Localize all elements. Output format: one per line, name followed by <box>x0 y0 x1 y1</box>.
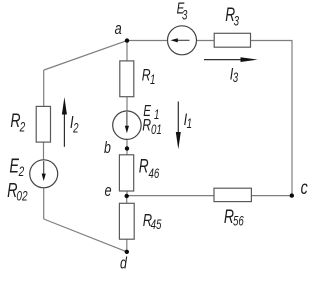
svg-text:c: c <box>301 177 309 198</box>
wire E2 down to bottom bend <box>43 188 45 219</box>
resistor R1 <box>120 61 134 97</box>
resistor R46 <box>119 155 133 191</box>
label R3 <box>225 4 239 29</box>
svg-text:R: R <box>139 155 149 177</box>
resistor R56 <box>214 188 251 201</box>
label R46 <box>139 155 160 181</box>
svg-text:1: 1 <box>150 73 155 88</box>
current arrow I2 <box>62 97 67 147</box>
label I3 <box>230 65 239 86</box>
svg-text:d: d <box>120 255 128 273</box>
source E1 <box>113 111 141 139</box>
wire E1 to b <box>126 139 128 148</box>
svg-text:2: 2 <box>19 119 26 135</box>
node e <box>125 194 129 198</box>
wire a diagonal to left bend <box>44 41 127 70</box>
svg-text:3: 3 <box>234 14 240 29</box>
label E1 <box>143 101 159 123</box>
node d <box>125 250 129 254</box>
label R56 <box>224 206 244 229</box>
wire R46 to e <box>126 191 128 196</box>
label R2 <box>10 110 25 135</box>
node c <box>290 193 294 197</box>
svg-text:45: 45 <box>151 217 162 232</box>
svg-text:e: e <box>105 181 112 200</box>
current arrow I1 <box>176 102 181 150</box>
svg-text:2: 2 <box>18 163 25 179</box>
resistor R3 <box>214 33 250 47</box>
svg-text:3: 3 <box>182 8 188 23</box>
svg-text:R: R <box>142 117 151 135</box>
wire R3 to corner and down to c <box>251 41 293 196</box>
label R45 <box>143 211 162 232</box>
svg-text:E: E <box>9 154 19 177</box>
wire b to R46 <box>126 149 128 156</box>
svg-text:46: 46 <box>149 167 160 182</box>
label R02 <box>7 179 28 204</box>
svg-text:a: a <box>115 19 122 38</box>
label E2 <box>9 154 24 179</box>
wire R2 to E2 <box>43 142 45 160</box>
resistor R2 <box>36 106 50 142</box>
label E3 <box>177 0 188 23</box>
label I1 <box>184 110 192 131</box>
wire bend diagonal to d <box>44 219 127 252</box>
svg-text:3: 3 <box>233 71 239 86</box>
wire R56 to e <box>127 195 214 197</box>
current arrow I3 <box>204 57 258 62</box>
label I2 <box>70 113 79 136</box>
svg-text:01: 01 <box>151 123 162 138</box>
svg-text:56: 56 <box>233 214 244 229</box>
source E2 <box>30 160 58 188</box>
svg-text:1: 1 <box>187 117 192 132</box>
svg-text:02: 02 <box>16 188 27 204</box>
wire R1 to E1 <box>126 97 128 112</box>
wire c to R56 <box>251 195 292 197</box>
label R01 <box>142 117 162 138</box>
svg-text:1: 1 <box>154 108 159 123</box>
node a <box>125 38 129 42</box>
resistor R45 <box>119 203 134 239</box>
wire E3 to R3 <box>197 40 215 42</box>
wire a to R1 <box>126 41 128 61</box>
wire left vertical to R2 <box>43 70 45 106</box>
wire e to R45 <box>126 196 128 203</box>
label R1 <box>142 67 156 88</box>
svg-text:2: 2 <box>72 121 79 136</box>
wire R45 to d <box>126 239 128 252</box>
wire a to E3 <box>127 40 168 42</box>
source E3 <box>168 26 197 55</box>
node b <box>125 146 129 150</box>
svg-text:b: b <box>104 140 111 158</box>
